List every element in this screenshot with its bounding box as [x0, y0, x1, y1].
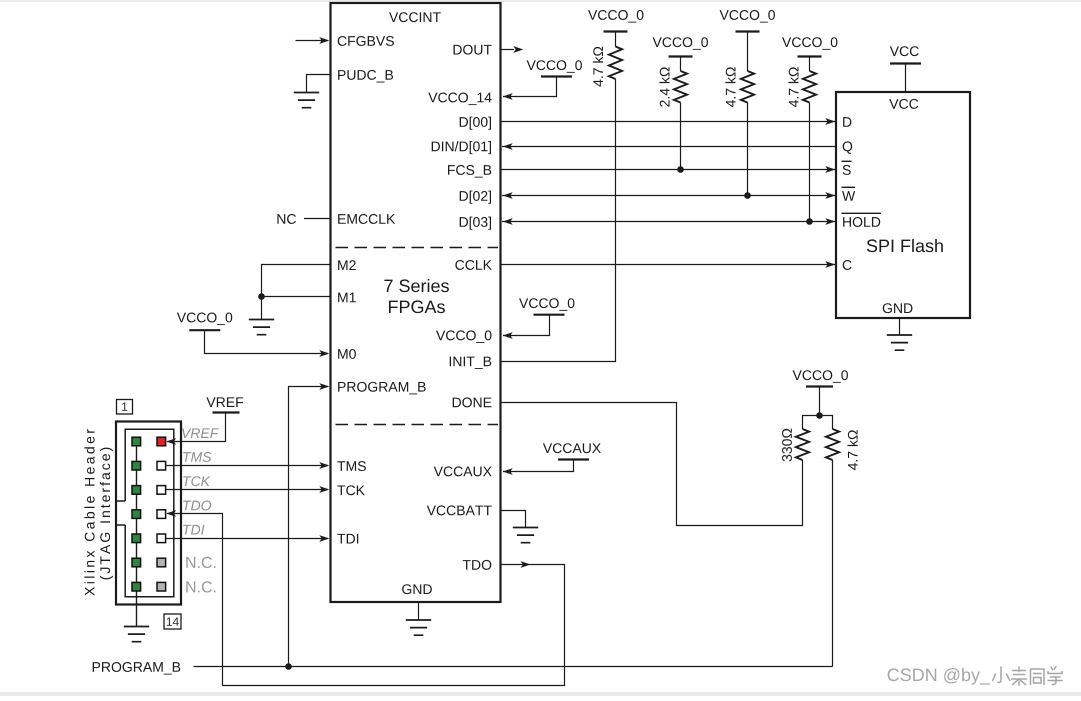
junction dot FCS_B / 2.4k pullup: [677, 166, 684, 173]
wire D[00] to flash D: [501, 121, 835, 123]
wire M2: [262, 265, 331, 297]
wire D[02] to flash W: [502, 195, 835, 197]
header signal pin TMS: [157, 461, 166, 470]
SPI Flash pin D: [843, 117, 851, 127]
power VCCAUX: [543, 443, 552, 453]
wire TMS header to FPGA: [166, 465, 328, 467]
Xilinx cable header J1 outer shell: [116, 422, 181, 605]
junction dot pullup node: [816, 412, 823, 419]
header gray signal labels: [182, 428, 191, 438]
ground (PUDC_B): [294, 93, 319, 108]
wire VCC to flash: [905, 65, 907, 92]
power VCCO_0 (R2): [653, 37, 662, 47]
FPGA right pin labels: [453, 45, 461, 55]
watermark CJK glyphs: [993, 667, 1062, 686]
header signal pin TDI: [157, 534, 166, 543]
wire junction to ground: [261, 297, 263, 320]
resistor R2 2.4k (FCS_B pullup): [680, 58, 682, 72]
junction dot M1/M2: [258, 293, 265, 300]
SPI Flash labels: [889, 99, 898, 109]
SPI Flash pin W (active low): [842, 191, 855, 201]
wire R6 down to PROGRAM_B net: [832, 460, 834, 667]
ground (VCCBATT): [513, 528, 538, 543]
header ground pin row 5 (green): [132, 534, 141, 543]
wire FPGA GND to ground: [418, 602, 420, 620]
FPGA U1: 7 Series FPGAs box: [331, 3, 501, 602]
SPI Flash pin S (active low): [843, 165, 851, 175]
wire CCLK to flash C: [501, 264, 835, 266]
wire VCCO_0 to M0: [205, 331, 329, 354]
pin 1 designator box: [117, 400, 133, 415]
header ground pin row 7 (green): [132, 582, 141, 591]
header ground pin column wire: [136, 442, 138, 627]
wire PROGRAM_B up to pin: [289, 387, 329, 667]
header ground pin row 2 (green): [132, 461, 141, 470]
power VCCO_0 (DONE/PROGRAM_B pullups): [793, 370, 802, 380]
wire VCCO_0 bar to junction: [819, 388, 821, 416]
pin 14 designator box: [164, 614, 181, 629]
wire DIN/D[01] to flash Q: [502, 146, 836, 148]
power VCCO_0 (R3): [720, 10, 729, 20]
header inner shroud with key notch: [117, 429, 174, 596]
power VCCO_0 (to VCCO_14 pin): [527, 60, 536, 70]
FPGA section separator dashed line (lower): [336, 424, 499, 426]
ground (M1/M2): [249, 320, 274, 335]
header ground pin row 6 (green): [132, 558, 141, 567]
page bottom border strip: [0, 692, 1081, 696]
wire R2 to FCS_B junction: [680, 103, 682, 170]
wire INIT_B to R1: [501, 79, 616, 362]
junction dot D[03] / 4.7k pullup: [806, 218, 813, 225]
PUDC_B wire to ground: [307, 75, 331, 93]
header ground pin row 1 (green): [132, 437, 141, 446]
resistor R3 4.7k (D[02]/W pullup): [747, 33, 749, 72]
header ground pin row 4 (green): [132, 510, 141, 519]
header signal pin TCK: [157, 486, 166, 495]
ground (FPGA GND): [406, 620, 431, 635]
header signal pin VREF: [157, 437, 166, 446]
header signal pin N.C. upper: [157, 558, 166, 567]
junction dot D[02] / 4.7k pullup: [744, 192, 751, 199]
FPGA section separator dashed line (upper): [336, 247, 499, 249]
wire VREF to pin 2: [167, 414, 226, 442]
wire TDO output: [167, 514, 565, 686]
resistor R5 330R (DONE pullup): [796, 429, 809, 460]
watermark CSDN: [888, 668, 899, 681]
NC label: [277, 214, 285, 224]
wire flash GND to ground: [899, 318, 901, 335]
SPI Flash pin Q: [843, 141, 853, 153]
wire R3 to D[02] junction: [747, 103, 749, 196]
junction dot PROGRAM_B: [285, 663, 292, 670]
ground (flash GND): [887, 335, 912, 350]
CFGBVS input wire: [296, 40, 329, 42]
power VREF: [206, 397, 215, 407]
PROGRAM_B net label: [93, 662, 100, 672]
header signal pin N.C. lower: [157, 582, 166, 591]
SPI Flash pin C: [843, 260, 852, 270]
wire VCCO_0 to VCCO_0 pin: [503, 316, 550, 336]
resistor R6 4.7k (PROGRAM_B pullup): [826, 429, 839, 460]
resistor R1 4.7k (INIT_B pullup): [615, 33, 617, 47]
wire TDI header to FPGA: [166, 538, 328, 540]
ground (header): [124, 627, 149, 642]
wire R4 to D[03] junction: [809, 103, 811, 222]
wire D[03] to flash HOLD: [502, 221, 835, 223]
power VCCO_0 (R1): [588, 10, 597, 20]
header ground pin row 3 (green): [132, 486, 141, 495]
wire node to both resistors: [803, 416, 833, 430]
wire DONE to 330R: [501, 403, 803, 526]
header signal pin TDO: [157, 510, 166, 519]
FPGA left pin labels: [338, 36, 347, 46]
SPI Flash pin HOLD (active low): [843, 217, 851, 227]
wire TCK header to FPGA: [166, 489, 328, 491]
page top border strip: [0, 0, 1081, 2]
wire VCCBATT to ground: [501, 511, 526, 528]
wire NC to EMCCLK: [304, 218, 330, 220]
power VCCO_0 (to VCCO_0 pin): [519, 298, 528, 308]
wire M1: [262, 296, 331, 298]
FPGA title labels: [389, 12, 398, 22]
wire FCS_B to flash S: [501, 169, 835, 171]
power VCC (flash): [890, 46, 899, 56]
SPI Flash U2 box: [836, 92, 970, 318]
wire PROGRAM_B bottom rail: [194, 666, 833, 668]
wire VCCO_0 to VCCO_14 pin: [503, 78, 557, 97]
DOUT output wire: [501, 49, 514, 51]
wire VCCAUX to pin: [503, 461, 574, 472]
resistor R4 4.7k (D[03]/HOLD pullup): [809, 58, 811, 72]
power VCCO_0 (M0): [177, 313, 186, 323]
power VCCO_0 (R4): [782, 37, 791, 47]
header vertical text: [84, 429, 94, 595]
